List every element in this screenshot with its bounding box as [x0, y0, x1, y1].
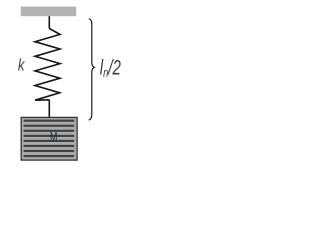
svg-text:M: M — [50, 131, 57, 145]
mass lamination stripes — [24, 120, 75, 158]
brace } marking half natural length — [89, 19, 95, 120]
wire: bottom stem from spring to mass — [48, 100, 50, 118]
mass outer frame — [21, 117, 77, 160]
ceiling bar (fixed support) — [21, 7, 76, 17]
label k (spring constant) — [18, 56, 26, 75]
wire: top stem from ceiling to spring — [48, 16, 50, 28]
svg-text:ln/2: ln/2 — [100, 55, 121, 81]
label l_n/2 (half natural length) — [100, 55, 121, 81]
label M — [50, 131, 57, 145]
spring k (zigzag coil) — [35, 29, 60, 101]
mass M block — [21, 117, 77, 160]
